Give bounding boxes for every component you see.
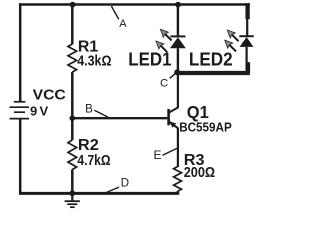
svg-text:D: D — [121, 177, 129, 189]
wire: thick LED bottom connector — [177, 71, 250, 75]
wire: LED1 cathode down to node C — [177, 48, 179, 72]
ground — [65, 193, 80, 207]
LED2 diode — [239, 36, 253, 47]
svg-text:B: B — [85, 103, 93, 115]
wire: LED1 anode column from top rail — [177, 5, 179, 37]
wire: thick stub at right of connector — [246, 62, 251, 73]
svg-text:200Ω: 200Ω — [184, 165, 216, 181]
svg-text:LED2: LED2 — [189, 50, 233, 70]
LED1 arrows — [160, 29, 171, 40]
node B junction dot — [70, 115, 76, 121]
svg-text:R2: R2 — [78, 137, 99, 154]
svg-text:4.3kΩ: 4.3kΩ — [77, 53, 112, 69]
wire: divider column top segment — [71, 5, 74, 45]
node D tick — [105, 187, 119, 193]
node B tick — [94, 110, 108, 117]
node C tick — [170, 74, 175, 79]
node C junction dot — [174, 69, 180, 75]
wire: LED2 anode wire — [246, 19, 248, 37]
svg-text:4.7kΩ: 4.7kΩ — [77, 153, 111, 169]
wire: left rail upper (VCC column) — [19, 3, 22, 102]
wire: left rail lower — [19, 119, 22, 195]
LED1 diode — [170, 36, 186, 48]
svg-text:V: V — [40, 104, 49, 119]
node: junction dot top wire / divider column — [70, 2, 76, 8]
battery VCC 9V — [10, 102, 30, 119]
wire: LED2 cathode down — [246, 47, 248, 64]
node: junction dot top wire / LED1 column — [175, 2, 181, 8]
svg-text:BC559AP: BC559AP — [179, 119, 232, 134]
wire: top rail — [19, 3, 250, 6]
node: junction dot bottom rail — [69, 190, 75, 196]
svg-text:LED1: LED1 — [128, 49, 171, 69]
node A tick — [111, 6, 118, 19]
wire: divider column middle segment — [71, 72, 74, 140]
svg-text:A: A — [119, 18, 127, 30]
wire: R3 bottom stub — [177, 191, 179, 193]
wire: collector wire — [177, 69, 179, 108]
resistor R1 — [68, 44, 77, 72]
wire: bottom rail — [19, 192, 179, 195]
svg-text:E: E — [154, 148, 162, 162]
resistor R3 — [174, 167, 182, 192]
svg-text:VCC: VCC — [33, 87, 66, 104]
svg-text:C: C — [160, 78, 168, 90]
wire: divider column bottom segment — [71, 170, 74, 194]
resistor R2 — [68, 140, 77, 170]
LED2 arrows — [227, 30, 238, 41]
wire: base wire to transistor — [72, 117, 167, 119]
svg-text:9: 9 — [30, 104, 37, 119]
node E tick — [163, 148, 177, 155]
wire: emitter wire — [177, 128, 179, 167]
wire: right rail thick stub from top corner — [245, 3, 249, 19]
transistor Q1 — [169, 107, 179, 128]
